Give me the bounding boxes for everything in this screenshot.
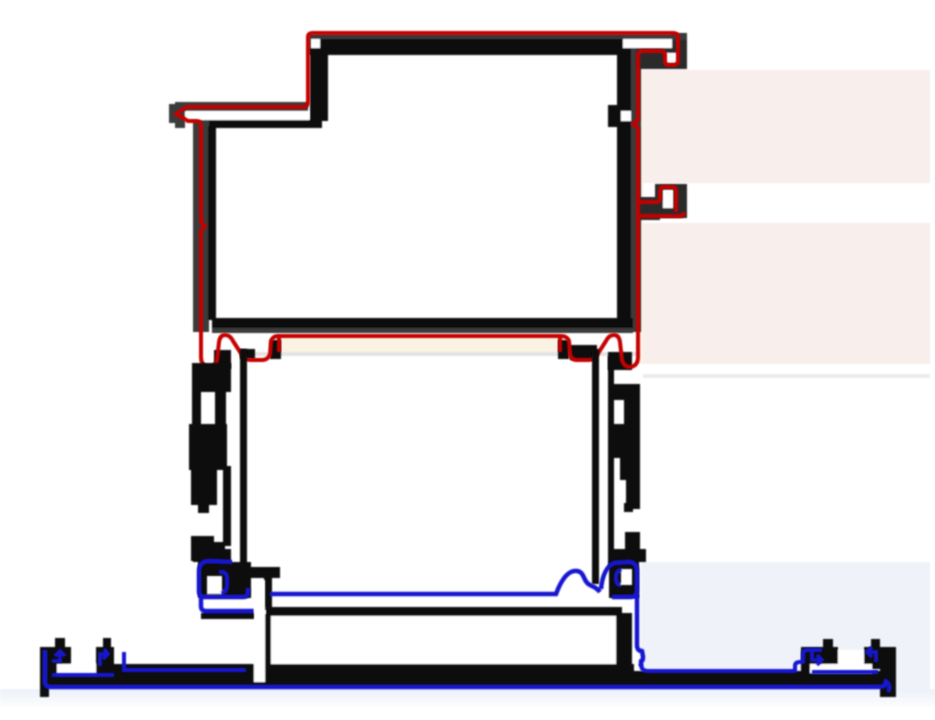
frame left foot top — [193, 549, 231, 562]
frame right wall lump — [614, 424, 640, 458]
sill blue lines — [45, 647, 889, 692]
frame right foot pocket curl — [616, 570, 622, 585]
sill right hook1 curl — [812, 650, 822, 665]
pale pink block lower right — [641, 223, 930, 364]
sill right hook2 block — [864, 647, 881, 669]
sill left channel white — [57, 664, 96, 675]
sash left arm tip (gray) — [169, 104, 185, 123]
glazing clip C2 dark body — [655, 184, 687, 218]
sill central box left wall — [264, 614, 272, 666]
faint frame top face line — [250, 352, 640, 356]
frame left wall block 3 — [191, 470, 217, 505]
frame left foot blue outline — [199, 561, 248, 597]
clip C1 white slot — [623, 39, 672, 48]
frame bottom wall — [231, 567, 280, 578]
sash left arm lower band — [207, 120, 322, 128]
cream glazing strip under sash — [279, 336, 557, 352]
sill mid band top — [114, 665, 248, 675]
sash left wall gray — [193, 120, 209, 332]
frame left foot white pocket — [207, 576, 222, 594]
sash gasket stub left — [277, 337, 281, 352]
frame bottom step column — [264, 578, 272, 610]
sill main band — [40, 664, 634, 687]
sill left hook1 block — [48, 647, 71, 665]
sash top wall — [309, 34, 623, 41]
faint hidden line right — [643, 374, 930, 378]
sash left wall black — [208, 126, 216, 320]
frame bottom blue line — [270, 571, 600, 594]
frame right wall lower — [625, 532, 640, 562]
frame left wall stem — [215, 392, 226, 424]
sill left riser blue — [122, 652, 126, 672]
sill mid band top blue — [122, 668, 246, 672]
sill left hook2 curl — [100, 649, 108, 666]
glazing clip C1 dark body — [636, 47, 687, 69]
frame left wall block 2 — [189, 424, 227, 470]
sill right foot curl — [884, 680, 889, 692]
sill left hook1 curl — [52, 651, 65, 661]
sash arm hollow white slot — [185, 111, 309, 120]
frame blue parts — [199, 561, 643, 666]
sash right wall tab — [608, 105, 617, 127]
sill right hook2 stem — [871, 639, 880, 649]
sash gasket blacks bottom-left — [214, 350, 231, 369]
sash bottom wall — [212, 318, 633, 329]
frame inner wall right line A — [592, 349, 599, 584]
pale pink block upper right — [638, 70, 930, 183]
sill bottom blue line — [45, 650, 887, 687]
frame left foot body — [198, 562, 251, 598]
clip C1 white wedge — [666, 53, 677, 63]
frame inner wall left line B — [223, 466, 231, 546]
pale blue region lower right — [641, 562, 930, 690]
frame right foot blue outline — [601, 562, 643, 666]
frame right foot white pocket — [621, 569, 632, 585]
frame left wall block 4 — [191, 536, 214, 561]
sash right wall black — [617, 46, 633, 332]
sash right wall gray — [631, 46, 641, 332]
sill seat blue line under left foot — [201, 598, 254, 611]
sill right band — [630, 671, 896, 687]
sill central box right wall — [616, 613, 632, 681]
frame right wall upper — [624, 400, 640, 424]
sill left hook2 block — [96, 647, 114, 673]
sill seat black strip under left foot — [201, 613, 255, 619]
pale blue bottom strip — [0, 689, 935, 707]
frame right foot top — [608, 549, 646, 562]
frame right wall small tab — [624, 503, 633, 512]
frame right wall tab — [613, 384, 640, 400]
sill right hook1 stem — [823, 639, 833, 649]
sash left arm top (gray) — [175, 102, 308, 112]
frame left wall foot tab — [198, 504, 209, 513]
sill left hook1 stem — [55, 638, 65, 649]
frame left wall ext — [213, 542, 225, 577]
sill right band top blue — [641, 650, 822, 671]
frame left wall block 1 — [192, 363, 231, 392]
sash right wall white dot — [621, 111, 631, 121]
sill right channel white — [810, 664, 872, 673]
sash red outline — [176, 33, 684, 367]
clip C2 red outline — [640, 187, 676, 212]
sash top-left step column — [310, 55, 328, 121]
frame inner wall left line A — [240, 349, 247, 584]
sill right hook2 curl — [867, 647, 876, 662]
sill right hook1 block — [801, 647, 838, 665]
sill right foot column — [880, 647, 896, 697]
sill left hook2 stem — [103, 638, 111, 649]
frame left foot pocket curl — [219, 572, 227, 593]
sill left slot white — [254, 580, 265, 682]
clip C2 white slot — [663, 190, 673, 208]
sill right channel bottom blue — [812, 670, 878, 674]
sash gasket blacks bottom-right — [608, 352, 632, 370]
sash top wall white notch — [311, 39, 320, 48]
frame right foot body — [609, 562, 639, 598]
sill central box top wall — [266, 607, 622, 616]
frame left wall line — [192, 392, 201, 426]
frame inner wall right line B — [608, 356, 614, 569]
sill left foot column — [40, 647, 49, 697]
sill central box interior — [271, 616, 616, 664]
sill left channel bottom blue — [52, 673, 114, 677]
sash gasket stub right — [558, 337, 562, 352]
